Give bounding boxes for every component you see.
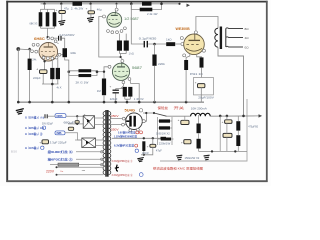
wire plate stub bbox=[116, 4, 118, 8]
svg-text:+: + bbox=[178, 118, 180, 122]
pins bottom 5U4G bbox=[129, 129, 132, 132]
B+ arrow marker bbox=[187, 4, 191, 7]
svg-text:+: + bbox=[181, 140, 183, 144]
svg-text:+: + bbox=[36, 67, 38, 71]
svg-text:46µ: 46µ bbox=[97, 8, 102, 12]
AC pair lower wire + X-cap bbox=[68, 123, 83, 125]
ground filament bbox=[137, 158, 144, 162]
bleeder resistors horizontal bbox=[158, 117, 173, 145]
wire cathode network bbox=[116, 81, 140, 103]
resistor R parallel top 4k bbox=[142, 2, 152, 6]
svg-text:接6H8C灯丝 ⑥: 接6H8C灯丝 ⑥ bbox=[46, 150, 73, 154]
pin number circles WE300B bbox=[180, 37, 183, 40]
svg-text:整流滤波电路和 KMC 原理接线图: 整流滤波电路和 KMC 原理接线图 bbox=[153, 166, 203, 171]
svg-text:0.47µF/630V: 0.47µF/630V bbox=[60, 33, 75, 37]
svg-text:0.1µF/630: 0.1µF/630 bbox=[139, 36, 157, 40]
svg-text:NFB: NFB bbox=[57, 115, 63, 118]
svg-text:220k/1W: 220k/1W bbox=[159, 142, 171, 146]
svg-text:6.3V接6P3C灯丝: 6.3V接6P3C灯丝 bbox=[114, 144, 134, 148]
svg-text:220k: 220k bbox=[158, 62, 165, 66]
wire from plate node down bbox=[131, 4, 143, 44]
svg-text:2. 4k 2W: 2. 4k 2W bbox=[71, 7, 84, 11]
resistor R parallel bottom 4k bbox=[140, 8, 153, 12]
grounds PSU bbox=[176, 155, 182, 160]
cap row bbox=[42, 140, 49, 144]
svg-text:5U4G: 5U4G bbox=[125, 109, 136, 113]
svg-text:50V 820µF: 50V 820µF bbox=[42, 122, 53, 126]
B+ rail bbox=[210, 115, 258, 117]
right caps + resistors bbox=[219, 116, 221, 151]
pin plate circle bbox=[120, 56, 122, 58]
svg-text:B（110V输入）: B（110V输入） bbox=[25, 146, 40, 150]
svg-text:220V: 220V bbox=[46, 170, 55, 174]
wire filament rail bbox=[112, 137, 161, 139]
wire left riser to 10k bbox=[65, 57, 69, 71]
svg-text:WE300B: WE300B bbox=[176, 27, 190, 31]
resistor cathode V3 b bbox=[128, 87, 132, 97]
box cathode cap 20uF bbox=[194, 78, 214, 95]
svg-text:6H8C: 6H8C bbox=[34, 37, 45, 41]
svg-text:接6P3C灯丝 ⑤: 接6P3C灯丝 ⑤ bbox=[46, 157, 73, 161]
HV wires to rectifier bbox=[111, 118, 127, 120]
tube V3 1/2 5687 bbox=[112, 63, 129, 80]
resistor 2K6 top bbox=[79, 69, 92, 72]
resistor cathode V1 b bbox=[56, 68, 60, 79]
circled numbers column bbox=[42, 126, 45, 129]
resistor grid 24k bbox=[29, 49, 31, 59]
wire primary bottom to B+ node bbox=[218, 47, 244, 116]
svg-text:1kΩ: 1kΩ bbox=[166, 38, 172, 42]
node dots on bus bbox=[43, 3, 180, 6]
wire from coupling cap1 bbox=[57, 42, 58, 45]
svg-text:B50: B50 bbox=[11, 151, 18, 154]
bottom tie line bbox=[199, 150, 247, 152]
shield arrow glyph bbox=[115, 165, 119, 171]
resistor grid stopper 1k bbox=[166, 42, 175, 46]
pin circles top bbox=[47, 37, 50, 40]
wire grid to SRPP link bbox=[99, 17, 120, 58]
secondary coils bbox=[225, 29, 227, 48]
svg-text:2K G 1W: 2K G 1W bbox=[76, 80, 89, 84]
pin 1 circle bbox=[115, 8, 118, 11]
resistor bank 68K x3 bbox=[39, 12, 43, 26]
pin plate circle bbox=[194, 31, 197, 34]
tube V2 1/2 5687 bbox=[107, 12, 122, 27]
pin grid circle bbox=[108, 65, 111, 68]
svg-text:1M: 1M bbox=[97, 89, 101, 93]
resistor 2K6 bottom bbox=[79, 74, 92, 77]
circled pin top right bbox=[139, 109, 142, 112]
wire parallel resistor loop bbox=[131, 4, 161, 10]
svg-text:B（110V输入）③: B（110V输入）③ bbox=[25, 132, 42, 136]
ground below cap1 bbox=[58, 20, 65, 25]
capacitor 0.1uF/630 bbox=[144, 41, 147, 48]
tube WE300B bbox=[184, 34, 205, 55]
wire to cathode box bbox=[201, 68, 203, 78]
svg-text:47µF: 47µF bbox=[156, 149, 162, 152]
wire cap2 stub bbox=[90, 4, 92, 11]
primary bumps left bbox=[103, 112, 105, 175]
svg-text:1k/1W: 1k/1W bbox=[142, 152, 149, 155]
pin grid circle left bbox=[103, 15, 106, 18]
resistor cathode V1 a bbox=[50, 68, 54, 79]
coupling capacitor C1 bbox=[53, 37, 58, 39]
wires to ground bbox=[144, 147, 153, 155]
bridge rectifier 2 bbox=[82, 138, 96, 148]
switch bbox=[143, 112, 154, 114]
pins bottom of V2 bbox=[107, 30, 110, 33]
resistor cathode WE300B bbox=[200, 57, 204, 67]
svg-text:+: + bbox=[222, 120, 224, 124]
svg-text:470µF/50: 470µF/50 bbox=[248, 125, 258, 128]
resistor outline box row bbox=[50, 164, 58, 166]
pin grid WE300B bbox=[181, 43, 184, 46]
diode plates bbox=[129, 116, 131, 127]
wire cap to grid stopper bbox=[148, 43, 166, 45]
svg-text:+: + bbox=[195, 80, 197, 84]
capacitor cathode bypass V3 bbox=[113, 90, 119, 93]
svg-text:NB: NB bbox=[57, 132, 62, 135]
wire cathode bbox=[197, 54, 202, 57]
caps middle bbox=[181, 120, 189, 124]
wire 5U4G out to switch bbox=[142, 120, 145, 123]
pins bottom bbox=[122, 81, 125, 84]
svg-text:+: + bbox=[56, 8, 58, 12]
svg-text:350V: 350V bbox=[111, 114, 119, 118]
resistor SRPP left bbox=[117, 41, 122, 51]
wire 70 drop to ground bus bbox=[68, 72, 70, 102]
taps bbox=[226, 28, 243, 47]
svg-text:1 4K X2: 1 4K X2 bbox=[134, 97, 144, 101]
wires bridge1 to transformer bbox=[95, 117, 104, 119]
vertical resistors mid bbox=[198, 115, 200, 124]
svg-text:1 kΩ: 1 kΩ bbox=[129, 52, 135, 56]
svg-text:+: + bbox=[39, 140, 41, 144]
svg-text:B（220V输入）B ②: B（220V输入）B ② bbox=[25, 126, 44, 130]
svg-text:3.15V接6H8C灯丝 ②: 3.15V接6H8C灯丝 ② bbox=[112, 159, 134, 163]
core bbox=[220, 27, 222, 50]
wire input bbox=[18, 48, 31, 51]
svg-text:B（220V输入）A ①: B（220V输入）A ① bbox=[25, 116, 44, 120]
secondary bumps right bbox=[109, 112, 111, 175]
wire B+ bus left section bbox=[41, 3, 180, 5]
wire cathode drops bbox=[120, 34, 127, 60]
wire plate loop to OPT bbox=[196, 17, 218, 31]
svg-text:3.3µF 220µF: 3.3µF 220µF bbox=[50, 141, 67, 145]
svg-text:保险丝: 保险丝 bbox=[158, 105, 169, 110]
resistor SRPP right bbox=[124, 41, 129, 51]
wire bank stub bbox=[41, 4, 55, 39]
svg-text:3.15V接6P3C灯丝 ③: 3.15V接6P3C灯丝 ③ bbox=[112, 173, 134, 177]
resistor cathode V3 a bbox=[123, 87, 127, 97]
wire filament to ground bus bbox=[186, 54, 190, 102]
svg-text:20µF/100V: 20µF/100V bbox=[198, 96, 214, 100]
border frame bbox=[6, 1, 267, 182]
svg-text:10H 200mA: 10H 200mA bbox=[191, 106, 207, 110]
svg-text:1N5/1W X2: 1N5/1W X2 bbox=[156, 132, 170, 136]
bridge rectifier 1 bbox=[83, 116, 94, 129]
svg-text:4t X: 4t X bbox=[57, 86, 62, 90]
capacitor 220uF cathode V1 bbox=[40, 70, 48, 74]
tube 5U4G bbox=[126, 113, 143, 130]
resistor R bus 2k4 2W bbox=[73, 2, 83, 6]
svg-text:2 4k 1W: 2 4k 1W bbox=[147, 12, 158, 16]
capacitor C 47uF bbox=[59, 11, 66, 14]
svg-text:680µF: 680µF bbox=[64, 122, 75, 124]
pin circles bottom bbox=[42, 56, 45, 59]
svg-text:150k/2W X2: 150k/2W X2 bbox=[185, 156, 200, 160]
resistor small series bbox=[161, 137, 167, 140]
svg-text:10k: 10k bbox=[70, 51, 77, 55]
ground symbol main bbox=[16, 109, 24, 115]
svg-text:+: + bbox=[110, 85, 112, 89]
svg-text:5.0V接5U4G灯丝: 5.0V接5U4G灯丝 bbox=[118, 131, 136, 135]
svg-text:220µF: 220µF bbox=[110, 97, 118, 101]
resistor filament dropper bbox=[142, 141, 145, 151]
capacitor C 46uF bbox=[88, 11, 95, 14]
tube V1 6H8C bbox=[39, 43, 58, 62]
svg-text:68K X3: 68K X3 bbox=[30, 22, 38, 26]
svg-text:~: ~ bbox=[82, 168, 86, 175]
resistor grid leak 1M bbox=[97, 71, 104, 73]
pin circles left bbox=[32, 43, 35, 46]
svg-text:开关: 开关 bbox=[174, 105, 185, 110]
wire cap1 stub bbox=[60, 4, 62, 11]
primary coil bbox=[215, 28, 218, 47]
ground below cap2 bbox=[87, 17, 94, 22]
svg-text:47µ: 47µ bbox=[64, 6, 69, 10]
svg-text:24k: 24k bbox=[32, 57, 36, 61]
svg-text:5687: 5687 bbox=[132, 66, 142, 70]
resistor grid leak 220k bbox=[154, 44, 156, 55]
svg-text:220µF: 220µF bbox=[33, 76, 41, 80]
input terminal bbox=[16, 47, 20, 51]
capacitor filament filter bbox=[152, 138, 154, 144]
svg-text:+: + bbox=[86, 6, 88, 10]
